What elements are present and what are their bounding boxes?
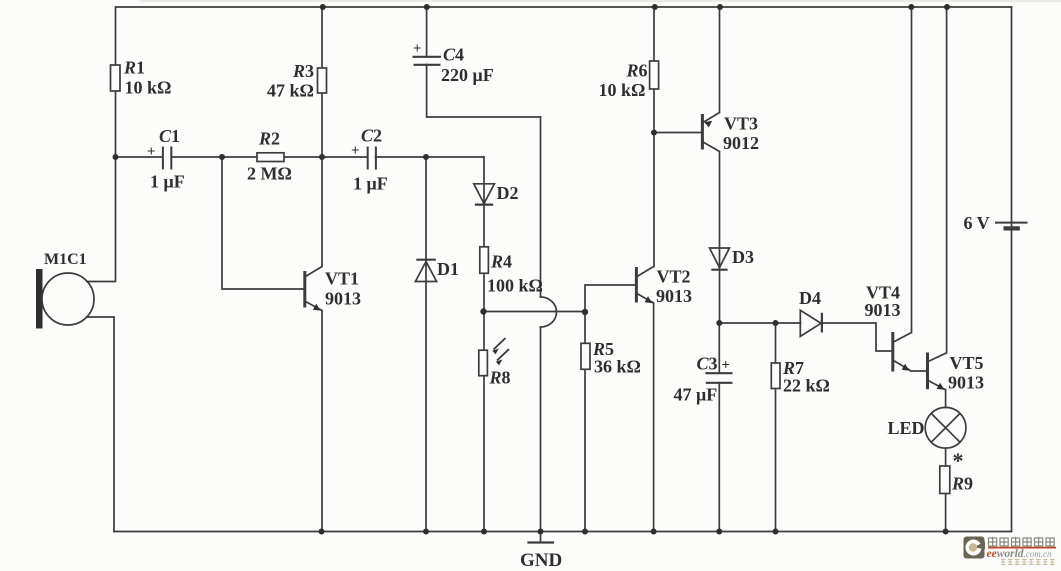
svg-text:+: + — [722, 358, 731, 374]
resistor R1 — [111, 65, 121, 91]
svg-text:R4: R4 — [490, 252, 512, 272]
svg-text:M1C1: M1C1 — [44, 251, 87, 268]
node top rail R3 — [320, 4, 326, 10]
svg-text:VT2: VT2 — [657, 267, 691, 287]
svg-text:+: + — [413, 41, 422, 57]
resistor R3 — [318, 68, 327, 93]
wire hop column lower to ground rail — [540, 327, 542, 532]
node A after C1 — [219, 154, 225, 160]
diode D3 — [710, 248, 730, 270]
svg-text:C1: C1 — [159, 126, 180, 146]
svg-text:+: + — [351, 143, 360, 159]
wire hop over signal — [541, 297, 557, 327]
capacitor C4 — [413, 57, 442, 65]
node ground rail D1 — [423, 529, 429, 535]
watermark chinese title (simulated glyph blocks) — [989, 537, 1055, 547]
node R3 bottom signal — [319, 154, 325, 160]
wire D4 to VT4 base — [822, 323, 892, 351]
node R5 top junction — [582, 309, 588, 315]
svg-text:D4: D4 — [799, 288, 821, 308]
svg-text:R3: R3 — [292, 61, 314, 81]
node top rail VT4 collector — [908, 4, 914, 10]
capacitor C1 — [163, 147, 171, 170]
transistor VT5 — [928, 353, 947, 390]
watermark slogan (simulated tiny glyphs) — [1001, 560, 1055, 565]
wire C2 to node B — [376, 156, 427, 158]
wire R2 span — [222, 156, 322, 158]
wire R4-R8 junction to R5 junction — [484, 311, 586, 313]
svg-text:36 kΩ: 36 kΩ — [594, 357, 641, 377]
wire LED to R9 — [945, 448, 947, 466]
node ground rail R5 — [582, 529, 588, 535]
node signal left rail — [113, 154, 119, 160]
svg-text:R9: R9 — [951, 474, 973, 494]
node top rail VT3 emitter — [717, 4, 723, 10]
wire C3 junction to D4 — [719, 322, 800, 324]
wire VT5 emitter to LED — [945, 390, 947, 408]
wire C1 to node A — [172, 156, 223, 158]
node top rail R6 — [652, 4, 658, 10]
wire C4 bottom lead to hop column — [427, 65, 541, 118]
transistor VT3 (PNP) — [702, 113, 719, 152]
svg-text:100 kΩ: 100 kΩ — [487, 276, 543, 296]
node top rail VT5 collector — [944, 4, 950, 10]
node top rail C4 — [424, 4, 430, 10]
svg-text:R8: R8 — [489, 368, 511, 388]
resistor R6 — [650, 61, 659, 89]
resistor R2 — [257, 153, 284, 162]
svg-text:6 V: 6 V — [964, 213, 990, 233]
svg-text:eeworld.com.cn: eeworld.com.cn — [987, 548, 1053, 560]
wire VT2 emitter down — [653, 303, 655, 532]
watermark eeworld logo — [964, 537, 1057, 565]
wire R7 column — [775, 323, 777, 532]
node R6 bottom VT3 base — [651, 130, 657, 136]
svg-text:9013: 9013 — [656, 286, 692, 306]
svg-text:47 kΩ: 47 kΩ — [267, 81, 314, 101]
node D3 C3 D4 junction — [716, 320, 722, 326]
resistor R7 — [771, 363, 780, 389]
scan border artifact top — [140, 0, 1061, 2]
wire C3 bottom lead — [718, 383, 720, 532]
wire hop column upper — [540, 117, 542, 297]
wire VT1 emitter column — [321, 311, 323, 532]
svg-text:VT5: VT5 — [950, 353, 984, 373]
node ground rail GND — [538, 529, 544, 535]
svg-text:D3: D3 — [732, 247, 754, 267]
photoresistor R8 — [479, 338, 509, 376]
svg-text:10 kΩ: 10 kΩ — [125, 78, 172, 98]
wire VT3 base from junction — [654, 132, 701, 134]
transistor VT1 — [305, 267, 322, 311]
battery 6V — [995, 223, 1028, 229]
svg-text:9012: 9012 — [723, 133, 759, 153]
ground symbol bar — [529, 541, 554, 543]
wire C2 segment — [322, 156, 368, 158]
svg-text:C3: C3 — [697, 354, 718, 374]
wire VT3 emitter up to rail — [719, 7, 721, 113]
wire R5 column down — [584, 312, 586, 532]
wire right edge (battery branch) — [1011, 7, 1013, 532]
svg-text:47 μF: 47 μF — [674, 385, 718, 405]
svg-text:22 kΩ: 22 kΩ — [783, 376, 830, 396]
wire C4 top lead — [426, 7, 428, 57]
lamp LED symbol — [925, 407, 966, 448]
wire VT4 emitter to VT5 base — [911, 370, 927, 372]
svg-text:LED: LED — [888, 418, 925, 438]
node ground rail VT1 emitter — [319, 529, 325, 535]
wire R9 to ground rail — [945, 494, 947, 532]
node ground rail R8 — [481, 529, 487, 535]
wire mic top terminal to left rail up — [87, 7, 116, 282]
svg-text:2 MΩ: 2 MΩ — [247, 164, 292, 184]
svg-text:GND: GND — [520, 550, 562, 571]
svg-text:1 μF: 1 μF — [353, 174, 388, 194]
svg-text:D1: D1 — [437, 259, 459, 279]
svg-text:R2: R2 — [258, 129, 280, 149]
wire R5 junction up to VT2 base — [585, 285, 635, 312]
svg-text:220 μF: 220 μF — [441, 65, 494, 85]
diode D1 — [415, 260, 436, 282]
resistor R9 — [940, 466, 950, 494]
wire VT4 collector up to rail — [911, 7, 913, 333]
node ground rail R7 — [773, 529, 779, 535]
svg-text:VT1: VT1 — [325, 269, 359, 289]
wire node B to D2 column — [426, 156, 484, 158]
wire C3 top lead — [718, 323, 720, 373]
node B after C2 — [423, 154, 429, 160]
svg-text:D2: D2 — [497, 183, 519, 203]
ground symbol stub — [540, 532, 542, 543]
transistor VT4 — [893, 332, 912, 372]
node ground rail VT2 emitter — [651, 529, 657, 535]
wire VT5 collector up to rail — [946, 7, 948, 353]
transistor VT2 — [636, 267, 653, 304]
svg-text:1 μF: 1 μF — [150, 172, 185, 192]
resistor R4 — [480, 247, 489, 273]
node R4 R8 junction — [480, 308, 486, 314]
wire VT3 collector to D3 to C3 junction — [719, 152, 721, 324]
svg-text:R6: R6 — [626, 61, 648, 81]
wire mic bottom terminal to left rail down — [87, 317, 115, 532]
diode D4 — [800, 310, 822, 336]
svg-text:9013: 9013 — [948, 373, 984, 393]
diode D2 — [474, 184, 495, 205]
wire D1 column — [425, 157, 427, 532]
svg-text:R1: R1 — [123, 58, 145, 78]
svg-text:+: + — [147, 144, 156, 160]
svg-text:VT3: VT3 — [724, 114, 758, 134]
wire top supply rail — [116, 6, 1012, 8]
svg-text:9013: 9013 — [325, 289, 361, 309]
capacitor C2 — [368, 147, 376, 170]
wire node A down to VT1 base — [222, 157, 304, 289]
svg-text:9013: 9013 — [865, 300, 901, 320]
wire R3 / VT1 collector column — [321, 7, 323, 267]
wire C1 line left segment — [116, 156, 163, 158]
resistor R5 — [581, 343, 590, 369]
capacitor C3 — [705, 373, 732, 383]
wire D2 R4 R8 column — [483, 157, 485, 532]
wire R6 / VT2 collector column — [653, 7, 655, 267]
node ground rail R9 — [943, 529, 949, 535]
node R7 top junction — [773, 320, 779, 326]
node ground rail C3 — [716, 529, 722, 535]
svg-text:10 kΩ: 10 kΩ — [599, 80, 646, 100]
svg-text:C4: C4 — [443, 45, 464, 65]
microphone M1C1 body — [36, 269, 94, 329]
svg-text:C2: C2 — [361, 126, 382, 146]
svg-text:*: * — [953, 448, 964, 473]
wire bottom ground rail — [114, 531, 1012, 533]
